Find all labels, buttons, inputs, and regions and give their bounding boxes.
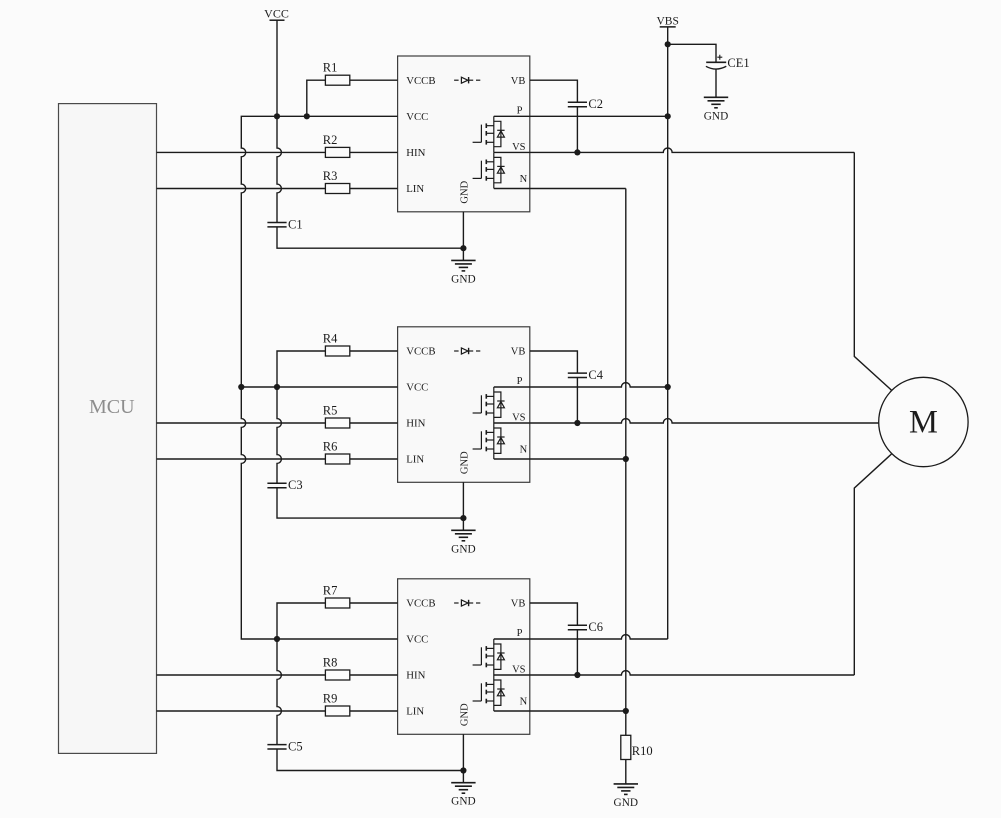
wire MCU to R2 (HIN1) <box>157 151 326 153</box>
transistor low-side MOSFET of driver U3 <box>473 675 505 711</box>
svg-text:HIN: HIN <box>406 418 425 430</box>
svg-text:HIN: HIN <box>406 670 425 682</box>
wire C2 bottom to VS1 <box>576 107 578 153</box>
wire C5 bottom to GND junction U3 <box>277 749 463 771</box>
capacitor C4 <box>568 373 587 377</box>
svg-text:LIN: LIN <box>406 706 424 718</box>
svg-text:VCCB: VCCB <box>406 75 435 87</box>
svg-text:R10: R10 <box>632 744 653 758</box>
svg-text:VCCB: VCCB <box>406 598 435 610</box>
transistor low-side MOSFET of driver U1 <box>473 152 505 188</box>
wire VBS bus down to P row U3 <box>667 27 669 639</box>
wire CE1 to ground <box>715 69 717 97</box>
svg-text:LIN: LIN <box>406 183 424 195</box>
svg-text:R1: R1 <box>323 61 338 75</box>
svg-text:VB: VB <box>511 599 526 610</box>
capacitor C3 <box>267 483 286 487</box>
capacitor C5 <box>267 745 286 749</box>
node U3 GND junction <box>460 767 466 773</box>
node U1 GND junction <box>460 245 466 251</box>
wire MCU to R6 (LIN2) <box>157 458 326 460</box>
svg-text:P: P <box>517 105 523 116</box>
svg-text:R6: R6 <box>323 439 338 453</box>
svg-text:N: N <box>520 174 528 185</box>
capacitor C2 <box>568 102 587 106</box>
wire R7 to VCCB U3 <box>350 602 398 604</box>
wire R6 to LIN U2 <box>350 458 398 460</box>
node VCC/C1/U1-VCC junction <box>274 113 280 119</box>
resistor R2 <box>325 147 349 157</box>
MCU U0 block <box>59 104 157 754</box>
svg-text:P: P <box>517 628 523 639</box>
wire VS row U1 to motor feed <box>494 148 855 152</box>
wire R7 left lead <box>277 603 325 639</box>
wire R4 to VCCB U2 <box>350 350 398 352</box>
wire R5 to HIN U2 <box>350 422 398 424</box>
svg-text:GND: GND <box>451 543 475 555</box>
resistor R7 <box>325 598 349 608</box>
gate driver U2 block <box>398 327 530 483</box>
svg-text:R2: R2 <box>323 133 338 147</box>
node C4/VS2 junction <box>574 420 580 426</box>
svg-text:M: M <box>909 405 938 441</box>
bootstrap diode symbol in driver U3 <box>454 600 480 606</box>
wire C1 bottom to GND junction <box>277 227 463 248</box>
svg-text:GND: GND <box>451 273 475 285</box>
node C2/VS1 junction <box>574 149 580 155</box>
wire P row U1 to VBS bus <box>494 115 668 117</box>
ground R10 <box>614 784 638 795</box>
ground U1 <box>451 260 475 271</box>
svg-text:C6: C6 <box>588 620 603 634</box>
svg-text:R4: R4 <box>323 331 338 345</box>
wire VCC row U2 down to C3 <box>277 387 281 483</box>
wire C6 bottom to VS3 <box>576 630 578 675</box>
svg-text:VCCB: VCCB <box>406 346 435 358</box>
wire U3 GND pin stub <box>462 734 464 782</box>
svg-text:R5: R5 <box>323 403 338 417</box>
svg-text:N: N <box>520 445 528 456</box>
wire VCC row U3 down to C5 <box>277 639 281 745</box>
wire N bus x=626 down to R10 <box>625 189 627 736</box>
svg-text:CE1: CE1 <box>727 56 749 70</box>
wire R1 left lead <box>307 80 326 116</box>
svg-text:VB: VB <box>511 76 526 87</box>
bootstrap diode symbol in driver U1 <box>454 77 480 83</box>
wire VS row U2 to motor <box>494 419 879 423</box>
resistor R6 <box>325 454 349 464</box>
svg-text:VCC: VCC <box>406 382 428 394</box>
node P1 on VBS bus <box>665 113 671 119</box>
wire U2 GND pin stub <box>462 482 464 530</box>
wire MCU to R8 (HIN3) <box>157 674 326 676</box>
svg-text:R9: R9 <box>323 691 338 705</box>
wire VS row U3 to motor feed <box>494 671 855 675</box>
resistor R8 <box>325 670 349 680</box>
ground U2 <box>451 530 475 541</box>
svg-text:R8: R8 <box>323 655 338 669</box>
svg-text:C1: C1 <box>288 217 303 231</box>
resistor R3 <box>325 184 349 194</box>
svg-text:C4: C4 <box>588 368 603 382</box>
wire MCU to R3 (LIN1) <box>157 188 326 190</box>
node VBS/CE1 junction <box>665 41 671 47</box>
transistor high-side MOSFET of driver U2 <box>473 387 505 423</box>
wire R2 to HIN U1 <box>350 151 398 153</box>
wire MCU to R9 (LIN3) <box>157 710 326 712</box>
wire VB U1 to C2 <box>530 80 578 102</box>
wire N row U1 to N bus <box>494 188 626 190</box>
svg-text:GND: GND <box>460 180 471 203</box>
svg-text:GND: GND <box>704 110 728 122</box>
node N3/R10 junction <box>623 708 629 714</box>
wire R8 to HIN U3 <box>350 674 398 676</box>
node R7/C5 on U3 VCC row <box>274 636 280 642</box>
wire U2 VCC row <box>241 386 397 388</box>
wire R9 to LIN U3 <box>350 710 398 712</box>
svg-text:GND: GND <box>460 703 471 726</box>
svg-text:R3: R3 <box>323 169 338 183</box>
transistor high-side MOSFET of driver U3 <box>473 639 505 675</box>
transistor high-side MOSFET of driver U1 <box>473 116 505 152</box>
svg-text:P: P <box>517 376 523 387</box>
wire P row U2 to VBS bus <box>494 383 668 387</box>
svg-text:VS: VS <box>512 665 526 676</box>
svg-text:LIN: LIN <box>406 454 424 466</box>
capacitor CE1 (electrolytic) <box>706 55 726 69</box>
wire R10 to ground <box>625 760 627 784</box>
capacitor C1 <box>267 223 286 227</box>
svg-text:R7: R7 <box>323 583 338 597</box>
svg-text:VCC: VCC <box>406 111 428 123</box>
gate driver U3 block <box>398 579 530 735</box>
svg-text:GND: GND <box>614 797 638 809</box>
wire R3 to LIN U1 <box>350 188 398 190</box>
wire VCC bus (row U1 VCC, down x=241, row U3 VCC) <box>241 116 397 639</box>
resistor R9 <box>325 706 349 716</box>
node P2 on VBS bus <box>665 384 671 390</box>
node C6/VS3 junction <box>574 672 580 678</box>
ground U3 <box>451 783 475 794</box>
svg-text:C5: C5 <box>288 740 303 754</box>
motor M <box>879 377 968 466</box>
wire VB U3 to C6 <box>530 603 578 625</box>
ground CE1 <box>704 97 728 108</box>
wire MCU to R5 (HIN2) <box>157 422 326 424</box>
resistor R1 <box>325 75 349 85</box>
resistor R10 <box>621 735 631 759</box>
svg-text:HIN: HIN <box>406 147 425 159</box>
svg-text:GND: GND <box>451 796 475 808</box>
node VCC bus/U2 VCC row <box>238 384 244 390</box>
wire U1 GND pin stub <box>462 212 464 261</box>
gate driver U1 block <box>398 56 530 212</box>
svg-text:GND: GND <box>460 451 471 474</box>
svg-text:VBS: VBS <box>657 15 679 27</box>
wire R4 left lead <box>277 351 325 387</box>
svg-text:VS: VS <box>512 413 526 424</box>
wire VCC feed down x=277 <box>277 20 281 222</box>
svg-text:N: N <box>520 697 528 708</box>
wire C4 bottom to VS2 <box>576 378 578 424</box>
transistor low-side MOSFET of driver U2 <box>473 423 505 459</box>
wire P row U3 to VBS bus <box>494 635 668 639</box>
bootstrap diode symbol in driver U2 <box>454 348 480 354</box>
wire motor feed phase A <box>854 152 891 390</box>
wire N row U3 to N bus <box>494 710 626 712</box>
wire motor feed phase C <box>854 454 891 675</box>
wire VBS to CE1 <box>668 44 716 62</box>
svg-text:C2: C2 <box>588 97 603 111</box>
wire R1 to VCCB U1 <box>350 79 398 81</box>
svg-text:MCU: MCU <box>89 396 135 418</box>
resistor R5 <box>325 418 349 428</box>
wire N row U2 to N bus <box>494 458 626 460</box>
capacitor C6 <box>568 625 587 629</box>
wire C3 bottom to GND junction U2 <box>277 488 463 518</box>
node U2 GND junction <box>460 515 466 521</box>
node N2 on N bus <box>623 456 629 462</box>
svg-text:VCC: VCC <box>406 634 428 646</box>
svg-text:VCC: VCC <box>264 7 289 21</box>
svg-text:VB: VB <box>511 347 526 358</box>
node R1 tap on VCC row <box>304 113 310 119</box>
node R4/C3 on U2 VCC row <box>274 384 280 390</box>
resistor R4 <box>325 346 349 356</box>
svg-text:VS: VS <box>512 142 526 153</box>
svg-text:C3: C3 <box>288 478 303 492</box>
wire VB U2 to C4 <box>530 351 578 373</box>
